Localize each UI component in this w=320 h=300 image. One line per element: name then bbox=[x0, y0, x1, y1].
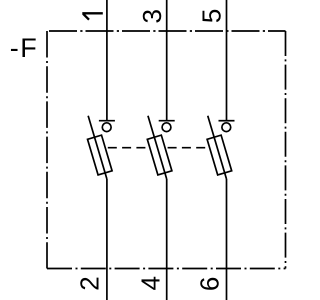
fuse body pole 3 bbox=[207, 135, 232, 175]
svg-text:2: 2 bbox=[74, 276, 104, 290]
contact circle pole 2 bbox=[162, 123, 171, 132]
wire bbox=[226, 0, 228, 121]
contact circle pole 3 bbox=[222, 123, 231, 132]
fixed contact bar pole 2 bbox=[159, 120, 175, 122]
svg-text:-F: -F bbox=[10, 33, 38, 63]
wire bbox=[166, 179, 168, 300]
enclosure outline (dash-dot boundary box) bbox=[47, 31, 286, 269]
terminal 1 bbox=[82, 13, 103, 19]
contact circle pole 1 bbox=[102, 123, 111, 132]
wire bbox=[106, 0, 108, 121]
switch blade pole 1 bbox=[88, 116, 107, 179]
fixed contact bar pole 1 bbox=[99, 120, 115, 122]
wire bbox=[166, 0, 168, 121]
fixed contact bar pole 3 bbox=[219, 120, 235, 122]
switch blade pole 3 bbox=[208, 116, 227, 179]
fuse body pole 2 bbox=[147, 135, 172, 175]
fuse-switch Q pole 3 bbox=[201, 0, 235, 300]
fuse body pole 1 bbox=[88, 135, 113, 175]
wire bbox=[285, 31, 287, 269]
wire bbox=[47, 268, 286, 270]
wire bbox=[47, 30, 286, 32]
wire bbox=[46, 31, 48, 269]
svg-text:5: 5 bbox=[197, 9, 227, 23]
svg-text:3: 3 bbox=[137, 9, 167, 23]
mechanical coupling link 1-2 (dashed) bbox=[105, 147, 149, 149]
fuse-switch Q pole 2 bbox=[141, 0, 175, 300]
fuse-switch Q pole 1 bbox=[81, 0, 115, 300]
mechanical coupling link 2-3 (dashed) bbox=[165, 147, 209, 149]
wire bbox=[106, 179, 108, 300]
svg-text:4: 4 bbox=[136, 276, 166, 290]
wire bbox=[226, 179, 228, 300]
svg-text:6: 6 bbox=[195, 277, 225, 291]
switch blade pole 2 bbox=[148, 116, 167, 179]
